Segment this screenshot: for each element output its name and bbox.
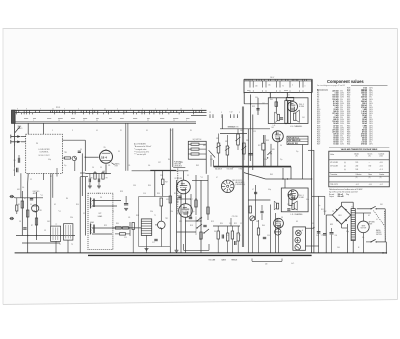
- svg-text:C31: C31: [262, 103, 265, 105]
- svg-text:47k: 47k: [108, 165, 110, 167]
- svg-text:100p: 100p: [306, 199, 309, 201]
- wire: [185, 194, 187, 204]
- wire: [200, 180, 202, 253]
- table notes: [329, 188, 363, 198]
- ground: [124, 207, 128, 209]
- svg-text:1 2: 1 2: [209, 112, 211, 114]
- wire: [125, 123, 127, 171]
- junction: [105, 173, 106, 174]
- svg-text:T2: T2: [56, 224, 58, 226]
- svg-text:VOLUME: VOLUME: [209, 260, 216, 262]
- junction: [250, 103, 251, 104]
- wire: [384, 209, 386, 242]
- resistor R4: [27, 210, 29, 217]
- wire: [15, 127, 20, 134]
- wire: [282, 168, 284, 179]
- svg-text:R18: R18: [190, 225, 193, 227]
- svg-text:R1: R1: [24, 198, 26, 200]
- wire: [84, 140, 86, 171]
- transformer T1: [141, 219, 151, 236]
- wire: [183, 171, 185, 180]
- svg-text:L.S. CHANNEL: L.S. CHANNEL: [290, 125, 302, 128]
- svg-text:R20: R20: [220, 223, 223, 225]
- svg-text:C28 450 V: C28 450 V: [228, 126, 235, 128]
- junction: [386, 252, 388, 254]
- valve V8: [275, 229, 281, 235]
- wire: [248, 199, 270, 201]
- svg-text:R54: R54: [347, 144, 350, 146]
- svg-text:Base: Base: [369, 174, 373, 176]
- wire: [269, 92, 271, 97]
- resistor R9: [102, 173, 104, 179]
- wire: [85, 156, 98, 158]
- wire: [15, 197, 43, 199]
- wire: [21, 136, 26, 138]
- wire: [129, 222, 131, 236]
- potentiometer VR3: [237, 134, 240, 145]
- wire: [257, 98, 259, 115]
- bus end arrow: [383, 252, 387, 254]
- wire: [176, 180, 178, 250]
- capacitor C4: [88, 178, 90, 182]
- svg-text:240: 240: [265, 263, 268, 265]
- svg-text:25µ: 25µ: [248, 167, 250, 169]
- svg-text:220k: 220k: [150, 211, 153, 213]
- loudspeaker enclosure box (lower channel): [281, 188, 308, 212]
- svg-text:R30: R30: [116, 223, 119, 225]
- svg-text:C13: C13: [97, 193, 100, 195]
- wire: [125, 196, 127, 203]
- svg-text:S1D: S1D: [272, 149, 275, 151]
- svg-text:VALVE AND TRANSISTOR VOLTAGE T: VALVE AND TRANSISTOR VOLTAGE TABLE: [341, 148, 378, 151]
- valve V3: [179, 204, 193, 218]
- resistor R32: [120, 233, 126, 235]
- svg-text:5 12: 5 12: [230, 112, 233, 114]
- valve V2: [177, 180, 191, 194]
- loudspeaker enclosure box (upper channel): [268, 98, 308, 124]
- svg-text:T3: T3: [71, 244, 73, 246]
- resistor R44: [257, 228, 259, 235]
- wire: [132, 170, 189, 172]
- svg-text:C38: C38: [210, 159, 213, 161]
- svg-text:CONTROL: CONTROL: [39, 152, 48, 154]
- svg-text:R37: R37: [258, 145, 261, 147]
- resistor R30: [115, 227, 121, 229]
- capacitor C33: [280, 117, 283, 119]
- wire: [308, 149, 314, 151]
- ground: [175, 249, 179, 251]
- resistor R3: [21, 201, 23, 208]
- loudspeaker LS2: [292, 204, 294, 210]
- wire: [169, 128, 171, 253]
- wire: [248, 231, 258, 233]
- svg-text:+2.0: +2.0: [380, 162, 383, 164]
- svg-text:V2 UCL83: V2 UCL83: [330, 166, 337, 168]
- wire: [79, 177, 81, 253]
- resistor R6: [16, 205, 18, 211]
- ground: [145, 248, 149, 250]
- wire: [162, 185, 164, 197]
- svg-text:25µ: 25µ: [192, 211, 194, 213]
- wire: [22, 242, 60, 244]
- record-play head assembly: [88, 193, 113, 250]
- mains transformer T4: [351, 207, 355, 241]
- output valve V6: [288, 190, 298, 200]
- input socket SK1 arrow: [17, 135, 21, 138]
- svg-text:TR5: TR5: [64, 152, 67, 154]
- svg-text:V4b: V4b: [285, 99, 288, 101]
- svg-text:R47: R47: [165, 181, 168, 183]
- svg-text:S1E: S1E: [203, 145, 206, 147]
- wire: [80, 172, 85, 174]
- wire: [325, 215, 327, 253]
- svg-text:R36: R36: [157, 193, 160, 195]
- svg-text:19: 19: [120, 130, 122, 132]
- capacitor C1: [17, 158, 19, 163]
- svg-text:TR1: TR1: [39, 210, 42, 212]
- wire: [92, 200, 121, 202]
- capacitor C5: [97, 178, 99, 182]
- wire: [56, 168, 58, 177]
- svg-text:**1.2: **1.2: [40, 195, 43, 197]
- svg-text:R33: R33: [136, 215, 139, 217]
- wire: [277, 142, 279, 167]
- wire: [127, 123, 129, 171]
- wire: [311, 80, 313, 253]
- svg-text:C35: C35: [287, 204, 290, 206]
- resistor R33: [132, 223, 134, 230]
- wire: [270, 144, 272, 167]
- wire: [220, 133, 247, 135]
- svg-text:VR2: VR2: [225, 141, 228, 143]
- svg-text:–4.2: –4.2: [356, 184, 359, 186]
- svg-text:R3: R3: [18, 204, 20, 206]
- svg-text:Ω OHM: Ω OHM: [299, 106, 305, 108]
- svg-text:R10: R10: [76, 204, 79, 206]
- wire: [312, 195, 325, 197]
- diagonal wire: [244, 173, 266, 180]
- wire: [14, 167, 16, 176]
- wire: [207, 175, 209, 220]
- svg-text:C30: C30: [255, 97, 258, 99]
- wire: [185, 220, 201, 222]
- ground: [97, 185, 101, 187]
- svg-text:EQ SWITCH: EQ SWITCH: [193, 139, 202, 141]
- svg-text:**1.2: **1.2: [200, 177, 203, 179]
- svg-text:MOTOR: MOTOR: [361, 228, 367, 230]
- svg-text:10k: 10k: [148, 165, 150, 167]
- svg-text:3 5 1: 3 5 1: [287, 94, 290, 96]
- svg-text:23: 23: [173, 120, 175, 122]
- wire: [318, 196, 320, 253]
- transistor TR2: [158, 221, 166, 229]
- wire: [36, 192, 38, 240]
- svg-text:TONE: TONE: [239, 169, 243, 171]
- valve voltage table: [329, 147, 390, 186]
- svg-text:+1.3: +1.3: [380, 169, 383, 171]
- control unit dashed box: [26, 134, 63, 173]
- svg-text:100p: 100p: [268, 189, 271, 191]
- capacitor C27: [260, 210, 263, 212]
- svg-text:4.7: 4.7: [216, 177, 218, 179]
- mid earth bus: [214, 166, 292, 168]
- record-play switch box: [188, 141, 206, 159]
- wire: [326, 214, 332, 216]
- wire: [177, 198, 192, 200]
- wire: [195, 175, 197, 215]
- svg-text:+5.6: +5.6: [380, 166, 383, 168]
- wire: [81, 153, 83, 196]
- svg-text:29: 29: [170, 130, 172, 132]
- svg-text:R27: R27: [317, 144, 320, 146]
- svg-text:TR1 OC71: TR1 OC71: [330, 184, 338, 186]
- svg-text:17: 17: [83, 120, 85, 122]
- svg-text:47k: 47k: [128, 165, 130, 167]
- svg-text:T1: T1: [154, 215, 156, 217]
- potentiometer VR5: [250, 216, 255, 221]
- cable bracket: [252, 260, 282, 262]
- resistance value list: [317, 88, 373, 146]
- transistor TR5: [72, 156, 76, 160]
- resistor R17: [195, 200, 197, 207]
- svg-text:**1.2: **1.2: [226, 235, 229, 237]
- transistor TR1: [32, 205, 39, 212]
- svg-text:MR1: MR1: [338, 215, 341, 217]
- svg-text:*65: *65: [112, 211, 114, 213]
- wire: [192, 180, 208, 182]
- input socket SK3: [11, 195, 14, 198]
- svg-text:100p: 100p: [288, 195, 291, 197]
- bias coil T3: [64, 224, 73, 240]
- junction: [282, 178, 283, 179]
- wire: [247, 129, 249, 180]
- wire: [385, 242, 387, 253]
- svg-text:C40: C40: [337, 247, 340, 249]
- wire: [357, 208, 371, 210]
- svg-text:S1B: S1B: [199, 218, 202, 220]
- output transformer T6: [289, 194, 292, 205]
- component value labels: [22, 151, 378, 239]
- output transformer T5: [285, 101, 288, 124]
- svg-text:21: 21: [104, 108, 106, 110]
- resistor R22: [231, 231, 233, 239]
- svg-text:10k: 10k: [22, 187, 24, 189]
- valve V4 triode: [272, 131, 283, 142]
- potentiometer VR2: [226, 146, 229, 155]
- resistor R47: [161, 179, 164, 185]
- main HT bus: [15, 252, 387, 254]
- svg-text:R9: R9: [106, 178, 108, 180]
- input socket SK4: [11, 217, 14, 220]
- wire: [162, 170, 164, 179]
- resistor R35: [160, 198, 163, 206]
- wire: [132, 230, 134, 253]
- svg-text:V2: V2: [187, 175, 189, 177]
- svg-text:Play: Play: [346, 194, 349, 196]
- svg-text:100p: 100p: [48, 159, 51, 161]
- wire: [190, 194, 192, 218]
- svg-text:V1 UCL83: V1 UCL83: [330, 162, 337, 164]
- svg-text:21: 21: [52, 108, 54, 110]
- switch S2a: [370, 208, 371, 209]
- wire: [27, 183, 29, 253]
- resistor R38: [262, 143, 265, 150]
- indicator lamp cluster: [293, 227, 306, 250]
- svg-text:R40: R40: [270, 99, 273, 101]
- wire: [230, 218, 232, 226]
- svg-text:C34: C34: [267, 235, 270, 237]
- svg-text:C40: C40: [335, 235, 338, 237]
- svg-text:105: 105: [356, 169, 359, 171]
- resistor R19: [207, 207, 209, 214]
- wire: [352, 241, 354, 253]
- svg-text:R7: R7: [31, 225, 33, 227]
- board corner: [183, 244, 185, 250]
- svg-text:S2: S2: [368, 215, 370, 217]
- preamp board outline: [139, 197, 171, 247]
- svg-text:4.7: 4.7: [252, 189, 254, 191]
- wire: [27, 173, 30, 183]
- wire: [172, 128, 174, 167]
- svg-text:LS1: LS1: [302, 117, 305, 119]
- wire: [180, 194, 182, 253]
- svg-text:C17: C17: [152, 242, 155, 244]
- svg-text:15 kΩ: 15 kΩ: [333, 144, 339, 146]
- capacitor C31: [256, 108, 259, 110]
- capacitor C20: [221, 235, 223, 239]
- svg-text:R22: R22: [234, 223, 237, 225]
- svg-text:25µ: 25µ: [296, 151, 298, 153]
- svg-text:Record: Record: [329, 194, 334, 196]
- svg-text:33: 33: [190, 130, 192, 132]
- wire: [21, 191, 23, 236]
- svg-text:R28: R28: [120, 191, 123, 193]
- svg-text:SK1: SK1: [17, 189, 20, 191]
- wire: [243, 92, 245, 103]
- oscillator coil T2: [51, 224, 61, 242]
- wire: [262, 92, 264, 135]
- wire: [221, 115, 223, 129]
- svg-text:TR2: TR2: [165, 218, 168, 220]
- wire: [62, 157, 64, 159]
- capacitor C14: [124, 203, 128, 205]
- svg-text:14: 14: [96, 130, 98, 132]
- svg-text:Component values: Component values: [327, 79, 364, 84]
- svg-text:R29: R29: [104, 225, 107, 227]
- loudspeaker LS2b: [274, 201, 279, 210]
- capacitor C43: [323, 233, 327, 235]
- wire: [290, 167, 292, 179]
- svg-text:V2 UCL83: V2 UCL83: [175, 178, 182, 180]
- svg-text:22: 22: [147, 120, 149, 122]
- svg-text:20: 20: [96, 120, 98, 122]
- svg-text:VR1: VR1: [216, 138, 219, 140]
- wire: [302, 145, 304, 180]
- svg-text:10%: 10%: [340, 144, 344, 146]
- supply note box: [287, 136, 308, 145]
- svg-text:220k: 220k: [264, 159, 267, 161]
- wire: [160, 229, 162, 247]
- svg-text:14: 14: [180, 108, 182, 110]
- svg-text:VR3: VR3: [240, 130, 243, 132]
- junction: [85, 157, 86, 158]
- wire: [160, 206, 162, 221]
- wire: [42, 123, 44, 134]
- svg-text:C16: C16: [143, 193, 146, 195]
- wire: [355, 212, 371, 214]
- capacitor C6: [30, 198, 33, 200]
- wire: [146, 235, 148, 253]
- svg-text:R52: R52: [324, 211, 327, 213]
- svg-text:250 mW: 250 mW: [338, 196, 345, 198]
- svg-text:R15: R15: [166, 199, 169, 201]
- svg-text:TREBLE: TREBLE: [231, 260, 237, 262]
- svg-text:** no-signal value: ** no-signal value: [134, 149, 147, 151]
- wire: [269, 205, 271, 253]
- svg-text:(UNDERSIDE): (UNDERSIDE): [235, 184, 245, 186]
- svg-text:PULL 3: PULL 3: [299, 195, 304, 197]
- loudspeaker LS1b: [275, 112, 280, 123]
- svg-text:C9: C9: [44, 230, 46, 232]
- list subtitle rule: [351, 84, 388, 86]
- motor M1: [358, 221, 370, 233]
- svg-text:SWITCH: SWITCH: [376, 234, 382, 236]
- potentiometer VR4: [243, 143, 246, 154]
- terminal tag strip TS1: [12, 108, 207, 123]
- svg-text:0.1: 0.1: [232, 167, 234, 169]
- wire: [251, 221, 253, 253]
- capacitor C24: [249, 153, 253, 155]
- wire: [213, 160, 215, 167]
- resistor R13: [191, 153, 199, 155]
- junction: [27, 235, 28, 236]
- svg-text:R46: R46: [168, 159, 171, 161]
- svg-text:100p: 100p: [346, 231, 349, 233]
- wire: [275, 213, 277, 253]
- wire: [264, 135, 266, 166]
- resistor R2: [65, 157, 71, 159]
- svg-text:MR1: MR1: [330, 224, 333, 226]
- svg-text:C15: C15: [124, 237, 127, 239]
- svg-text:Ω OHM: Ω OHM: [299, 197, 305, 199]
- svg-text:300 mV: 300 mV: [338, 194, 345, 196]
- svg-text:C36: C36: [133, 185, 136, 187]
- svg-text:L.S. CHANNEL: L.S. CHANNEL: [291, 213, 303, 216]
- wire: [346, 224, 348, 253]
- valve base pin view: [221, 180, 234, 193]
- junction: [129, 227, 130, 228]
- svg-text:200: 200: [356, 166, 359, 168]
- wire: [306, 245, 319, 247]
- svg-text:220k: 220k: [170, 211, 173, 213]
- wire: [85, 173, 111, 175]
- wire: [42, 173, 44, 180]
- wire: [20, 173, 22, 198]
- wire: [92, 227, 115, 229]
- svg-text:OSC: OSC: [47, 221, 50, 223]
- svg-text:C18: C18: [179, 221, 182, 223]
- svg-text:VR4: VR4: [246, 140, 249, 142]
- resistor R5: [35, 218, 37, 225]
- wire: [341, 202, 343, 206]
- svg-text:C11: C11: [83, 213, 86, 215]
- main earth bus: [88, 254, 312, 256]
- valve V7: [274, 218, 284, 228]
- svg-text:25µ: 25µ: [64, 165, 66, 167]
- wire: [255, 185, 257, 220]
- page bottom edge: [3, 300, 398, 305]
- loudspeaker LS1: [294, 110, 300, 122]
